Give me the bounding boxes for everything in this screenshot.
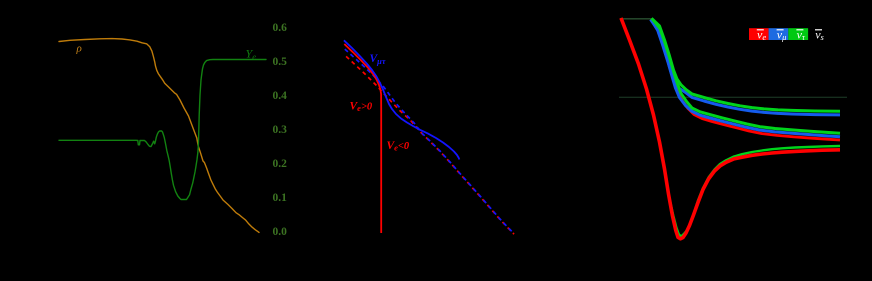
svg-text:0.6: 0.6 bbox=[273, 22, 288, 34]
curve rho (panel 1, density, orange) bbox=[59, 39, 259, 233]
legend box nubar_mu (blue) bbox=[769, 28, 789, 40]
zero line (panel 3) bbox=[619, 96, 847, 98]
curve nu_tau lower bundle (panel 3, green) bbox=[653, 19, 841, 133]
curve Ve solid red with vertical sign-flip (panel 2) bbox=[344, 44, 381, 233]
svg-text:Ve>0: Ve>0 bbox=[350, 101, 373, 114]
curve nubar_e dip (panel 3, red) bbox=[621, 18, 840, 239]
nu_s flat potential line (panel 3, dark green, top) bbox=[622, 18, 652, 20]
curve Ye (panel 1, electron fraction, green) bbox=[59, 60, 266, 200]
curve nubar_mu upper bundle (panel 3, blue) bbox=[651, 20, 841, 115]
curve nu_e lower bundle (panel 3, red) bbox=[655, 25, 840, 140]
curve nubar_tau upper bundle (panel 3, green) bbox=[652, 18, 841, 111]
svg-text:0.4: 0.4 bbox=[273, 90, 288, 102]
legend box nubar_tau (green) bbox=[788, 28, 808, 40]
svg-text:0.3: 0.3 bbox=[273, 124, 288, 136]
curve nu_mu lower bundle (panel 3, blue) bbox=[652, 21, 841, 137]
curve nubar_tau dip partner (panel 3, green under red) bbox=[621, 18, 840, 237]
curve Ve dashed blue (panel 2) bbox=[345, 49, 514, 234]
legend box nubar_e (red) bbox=[749, 28, 769, 40]
svg-text:0.0: 0.0 bbox=[273, 226, 288, 238]
svg-text:0.5: 0.5 bbox=[273, 56, 288, 68]
svg-text:Ve<0: Ve<0 bbox=[387, 140, 410, 153]
svg-text:ρ: ρ bbox=[76, 43, 82, 55]
svg-text:0.1: 0.1 bbox=[273, 192, 288, 204]
svg-text:0.2: 0.2 bbox=[273, 158, 288, 170]
curve Ve dashed red (panel 2) bbox=[345, 56, 514, 235]
curve Vmutau solid blue (panel 2) bbox=[344, 40, 459, 159]
